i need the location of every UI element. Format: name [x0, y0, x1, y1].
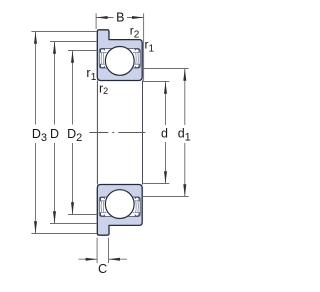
dim C left tail	[79, 258, 98, 260]
bore silhouette line right	[142, 81, 144, 185]
bearing upper half-section	[97, 30, 142, 81]
bearing lower half-section (mirror of upper about axis y=132.4)	[97, 185, 142, 236]
dim B arrow left	[96, 16, 108, 19]
left shield	[100, 49, 106, 68]
svg-text:r2: r2	[99, 82, 108, 97]
D2 extension line bottom	[68, 214, 97, 216]
D extension line top	[50, 41, 97, 43]
ball	[105, 47, 134, 76]
right shield (mirror)	[133, 49, 139, 68]
svg-text:r1: r1	[86, 66, 96, 83]
svg-text:d1: d1	[178, 126, 191, 143]
dim C arrow left	[86, 258, 98, 261]
svg-text:r2: r2	[130, 23, 140, 40]
dim C arrow right	[109, 258, 121, 261]
svg-text:D: D	[50, 127, 59, 141]
d extension line bottom	[143, 183, 169, 185]
centerline axis	[89, 132, 145, 134]
outer+inner ring body with flange tab	[97, 30, 142, 81]
svg-text:C: C	[98, 261, 107, 276]
svg-text:r1: r1	[145, 37, 155, 54]
dim B line	[96, 17, 113, 19]
svg-text:d: d	[161, 126, 168, 140]
dim D2 line	[72, 51, 74, 125]
dim d line	[165, 82, 167, 126]
D extension line bottom	[50, 223, 97, 225]
C extension line left	[96, 238, 98, 263]
dim B extension line left	[95, 13, 97, 29]
svg-text:B: B	[116, 10, 124, 24]
D3 extension line bottom	[31, 233, 97, 235]
dim d1 line	[184, 69, 186, 126]
d1 extension line top	[142, 68, 188, 70]
D2 extension line top	[68, 50, 97, 52]
bore silhouette line left	[96, 81, 98, 185]
d extension line top	[143, 81, 169, 83]
dim B extension line right	[143, 13, 145, 81]
d1 extension line bottom	[142, 196, 188, 198]
dim C right tail	[109, 258, 128, 260]
dim D3 line	[35, 32, 37, 125]
svg-text:D2: D2	[67, 127, 82, 144]
D3 extension line top	[31, 31, 97, 33]
C extension line right	[108, 238, 110, 263]
svg-text:D3: D3	[32, 127, 47, 144]
dim B arrow right	[132, 16, 144, 19]
dim D line	[54, 42, 56, 125]
shield slot (white groove band)	[99, 49, 140, 68]
